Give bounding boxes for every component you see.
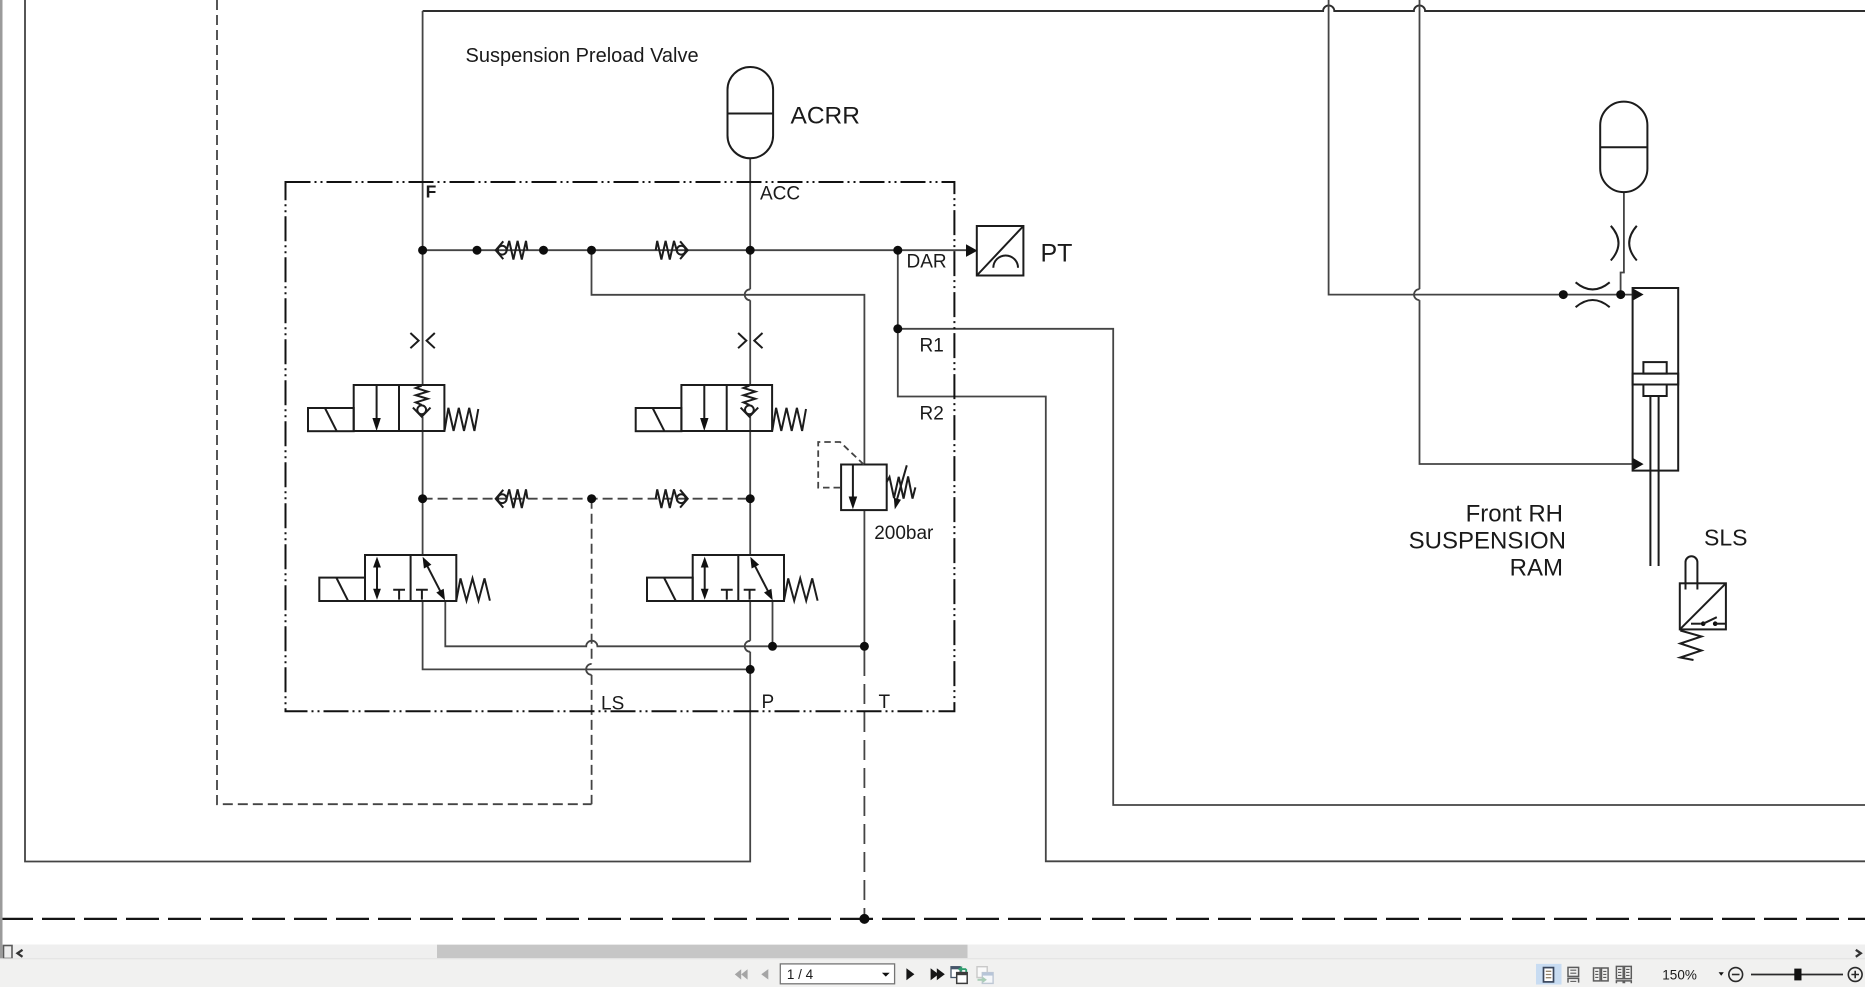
check valve CV2 right-flow on manifold line (656, 241, 688, 260)
toolbar previous view icon (951, 966, 967, 983)
junction dots A line (768, 642, 777, 651)
toolbar first page button (735, 969, 748, 979)
svg-text:SUSPENSION: SUSPENSION (1409, 528, 1566, 555)
toolbar page number box (780, 964, 894, 984)
toolbar zoom dropdown caret (1719, 972, 1724, 976)
scrollbar right arrow (1856, 950, 1861, 957)
wire T dashed lower (863, 656, 865, 919)
toolbar next view icon (disabled) (977, 967, 993, 984)
left page edge strip (0, 0, 3, 958)
svg-text:Front RH: Front RH (1466, 501, 1563, 528)
scrollbar thumb (437, 945, 968, 958)
toolbar next page button (906, 968, 914, 980)
svg-text:Suspension Preload Valve: Suspension Preload Valve (466, 45, 699, 67)
junction dot P-B (746, 665, 755, 674)
check valve CV4 right-flow on dashed line (656, 489, 688, 508)
relief valve RV1 200bar (818, 442, 915, 510)
wire F vertical upper (422, 11, 424, 385)
svg-text:RAM: RAM (1510, 555, 1563, 582)
wire dashed pilot rectangle route (217, 0, 592, 804)
svg-text:T: T (879, 692, 891, 713)
svg-text:R1: R1 (920, 336, 944, 357)
accumulator front right (1600, 102, 1647, 193)
wire DAR to R2 route (898, 250, 1865, 861)
pressure transducer PT (966, 226, 1023, 276)
suspension ram cylinder (1633, 288, 1679, 566)
wire P upper segment above hop (749, 601, 751, 641)
wire right vertical 2 and cylinder bottom feed (1420, 300, 1633, 464)
layout icon continuous (1568, 967, 1579, 982)
toolbar last page button (931, 968, 945, 980)
toolbar zoom out button (1729, 968, 1743, 982)
svg-text:R2: R2 (920, 404, 944, 425)
wire hop of P line over A line (745, 641, 750, 652)
svg-text:1 / 4: 1 / 4 (787, 967, 814, 982)
junction dot T bus (859, 914, 869, 924)
solenoid selector valve V3 (3/2, F line) (319, 555, 490, 601)
svg-text:ACC: ACC (760, 184, 800, 205)
svg-text:LS: LS (601, 694, 624, 715)
svg-text:SLS: SLS (1704, 525, 1747, 551)
solenoid poppet valve V1 (2/2, F line) (308, 385, 478, 431)
wire B horizontal (F valve to P junction) (423, 601, 751, 669)
junction dot R1 (893, 324, 902, 333)
layout icon two pages (1594, 968, 1609, 981)
wire ACC vertical upper (749, 158, 751, 289)
wire pilot branch to relief valve (592, 250, 865, 464)
junction dots dashed manifold line (418, 494, 427, 503)
wire ACC between valves (749, 417, 751, 555)
wire bottom long dash bus (0, 918, 1865, 920)
wire hop of ACC line over pilot line (745, 289, 750, 300)
wire left return route (P to page edge) (25, 0, 750, 862)
wire right vertical 1 and cylinder top feed (1329, 0, 1633, 295)
toolbar prev page button (761, 969, 768, 979)
check valve CV1 left-flow on manifold line (496, 241, 528, 260)
svg-text:ACRR: ACRR (791, 103, 860, 130)
toolbar background (0, 959, 1865, 987)
svg-text:F: F (426, 182, 437, 202)
scrollbar page corner icon (4, 946, 13, 959)
wire hop of vertical 2 over cylinder feed (1414, 289, 1420, 300)
check valve CV3 left-flow on dashed line (496, 489, 528, 508)
layout icon single page (selected) (1536, 964, 1562, 985)
junction dot DAR (893, 246, 902, 255)
svg-text:P: P (762, 692, 775, 713)
wire LS dashed lower (591, 675, 593, 804)
orifice on ACC line (738, 333, 762, 348)
pressure switch SLS (1680, 556, 1726, 660)
valve block boundary dash-dot-dot box (286, 182, 955, 711)
wire LS dashed upper (591, 499, 593, 664)
wire R1 route (898, 329, 1865, 805)
wire F vertical through valves down to B corner (422, 417, 424, 555)
layout icon two page continuous (1616, 966, 1631, 983)
solenoid poppet valve V2 (2/2, ACC line) (636, 385, 806, 431)
wire manifold top line (423, 249, 967, 251)
junction dots manifold top line (418, 246, 427, 255)
toolbar zoom in button (1848, 968, 1862, 982)
orifice on accumulator R stem (1611, 226, 1637, 261)
wire hop of LS over B line (586, 664, 592, 675)
wire accumulator R stem with jog (1621, 192, 1624, 295)
scrollbar left arrow (18, 950, 23, 957)
accumulator ACRR (728, 67, 774, 158)
svg-text:200bar: 200bar (874, 523, 934, 544)
wire right vertical 2 upper (1419, 0, 1421, 289)
orifice on cylinder feed line (1576, 282, 1610, 307)
wire A drop right valve (772, 601, 774, 646)
wire dashed manifold line (423, 498, 751, 500)
toolbar zoom slider (1751, 974, 1843, 976)
wire ACC vertical to valve (749, 300, 751, 385)
svg-text:PT: PT (1041, 240, 1073, 268)
junction dots cylinder feed line (1559, 290, 1568, 299)
svg-text:150%: 150% (1662, 968, 1697, 983)
wire relief outlet to T junction (863, 510, 865, 656)
solenoid selector valve V4 (3/2, ACC line) (647, 555, 818, 601)
svg-text:DAR: DAR (907, 252, 947, 273)
horizontal scrollbar track (0, 945, 1865, 959)
wire A horizontal with drops and hop over LS (445, 601, 864, 646)
orifice on F line (410, 333, 434, 348)
wire big box top line with hops (423, 5, 1865, 11)
